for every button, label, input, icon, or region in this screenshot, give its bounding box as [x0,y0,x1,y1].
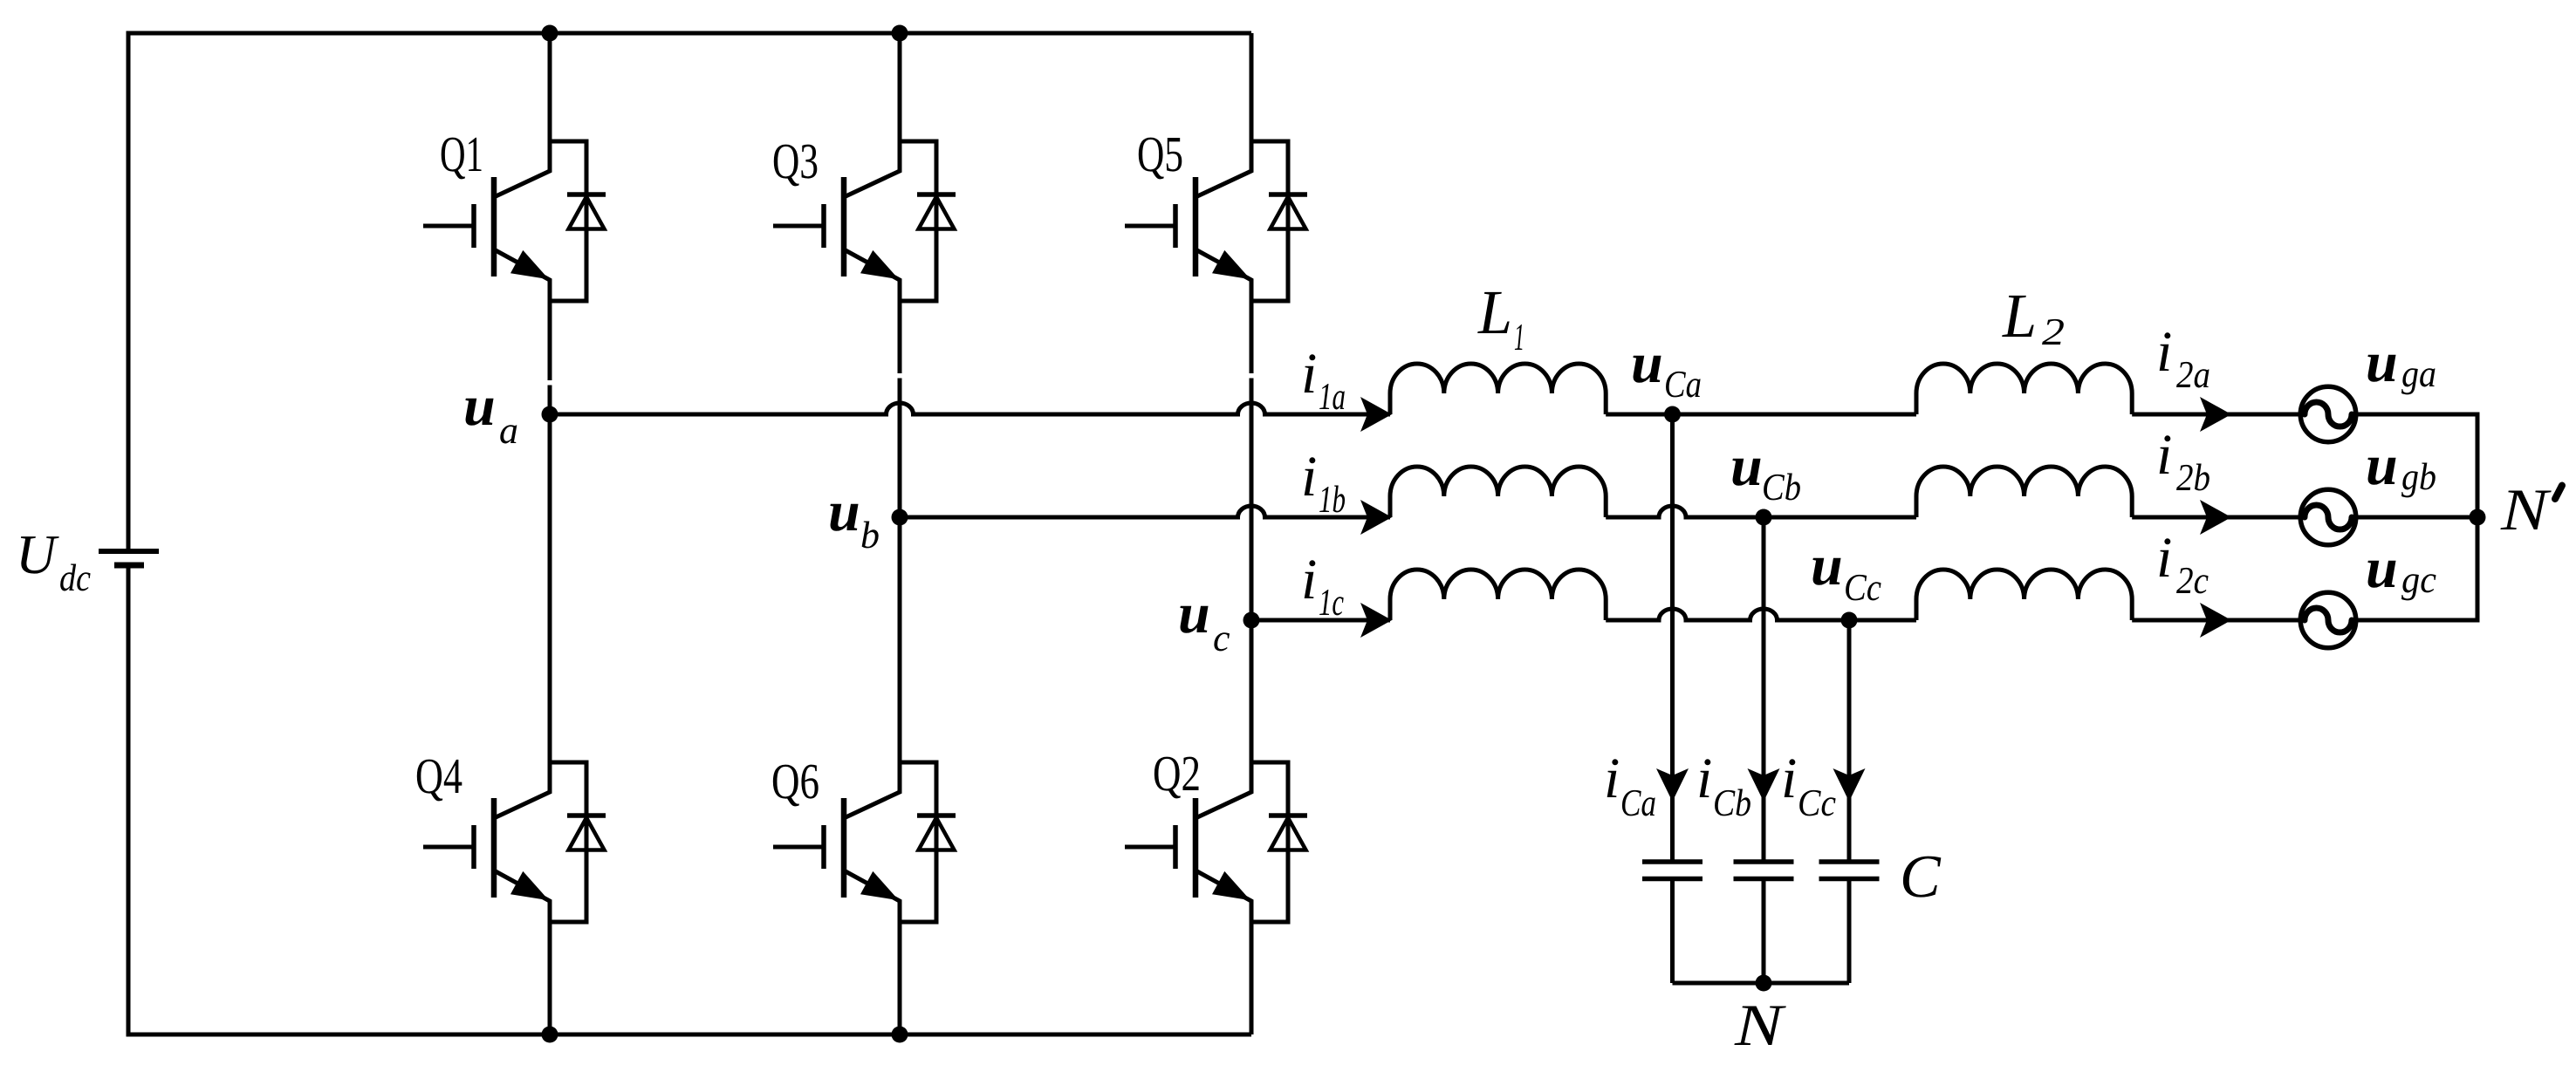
label u_a [465,399,493,426]
wire: battery negative to bottom bus [127,568,131,1037]
label i_2a [2160,332,2171,371]
transistor Q6 (IGBT): collector/emitter leads, body bar, gate [844,761,900,923]
transistor Q4 (IGBT): collector/emitter leads, body bar, gate [494,761,550,923]
label u_Cb [1732,459,1760,486]
label Q4 [417,760,462,802]
battery U_dc [99,549,159,554]
inductor L1 phase b [1390,467,1606,517]
label i_2b [2160,435,2171,474]
AC source u_ga [2300,386,2356,442]
arrow: i_2a [2200,397,2231,432]
wire: capacitor neutral bus N [1673,981,1850,986]
label N-prime [2500,490,2551,529]
label C [1903,857,1941,898]
label i_Ca subscript [1622,790,1655,816]
label u_Cc [1812,558,1840,585]
wire: L1b to L2b, hop over u_Ca branch, through u_Cb node [1606,506,1916,517]
wire: L2a to grid source u_ga [2132,413,2300,417]
label i_1a subscript [1319,384,1345,409]
label u_Cc subscript [1846,575,1881,601]
label i_1b [1305,457,1316,495]
node: bottom bus / Q4 leg [542,1027,558,1043]
capacitor C phase a [1642,859,1702,864]
label u_gb [2367,458,2395,485]
arrow: i_1b [1360,500,1392,535]
wire: leg top, Q3 collector [898,33,902,141]
node: u_c [1243,612,1260,629]
wire: leg bottom, Q4 emitter to negative bus [548,921,552,1034]
arrow: capacitor current i_Cb [1748,768,1780,802]
label U_dc [21,536,59,574]
label u_Cb subscript [1764,473,1800,500]
label u_c [1180,606,1208,633]
label i_1a [1305,354,1316,393]
wire: u_gc to right neutral riser [2356,618,2477,623]
diode: antiparallel freewheeling diode of Q4 [550,762,586,922]
label i_1c [1305,560,1316,598]
capacitor C phase c [1819,859,1880,864]
label u_b [830,504,858,531]
wire: left DC link, battery positive to top bus [127,31,131,550]
arrow: capacitor current i_Cc [1833,768,1866,802]
node: u_Cb [1756,509,1772,526]
label Q2 [1154,757,1199,799]
label i_Cc subscript [1799,790,1835,816]
capacitor C phase b [1734,859,1794,864]
wire: leg middle (phase point) [1250,300,1254,762]
wire: negative DC bus (bottom) [128,1033,1251,1037]
wire: capacitor branch a from u_Ca down to capacitor [1670,414,1675,862]
label u_gb subscript [2401,462,2436,497]
label i_Cb [1700,759,1711,797]
AC source u_gc [2300,592,2356,648]
inductor L1 phase a [1390,364,1606,414]
label U_dc subscript [60,563,90,591]
wire: capacitor c to neutral bus N [1847,879,1852,984]
wire: u_gb to neutral node N-prime [2356,515,2477,520]
inductor L2 phase a [1916,364,2132,414]
inductor L2 phase c [1916,570,2132,620]
label i_2a subscript [2176,362,2209,388]
diode: antiparallel freewheeling diode of Q6 [900,762,936,922]
label N [1734,1006,1785,1045]
node: u_Ca [1664,406,1681,423]
node: top bus / Q1 leg [542,25,558,42]
arrow: i_1a [1360,397,1392,432]
diode: antiparallel freewheeling diode of Q1 [550,141,586,301]
diode: antiparallel freewheeling diode of Q2 [1251,762,1288,922]
AC source u_gb [2300,489,2356,545]
label Q3 [774,145,818,187]
label i_2c [2160,538,2171,577]
label Q6 [773,765,819,807]
label Q1 [442,138,482,180]
label L_1 subscript [1515,324,1523,350]
node: u_b [892,509,908,526]
label i_Ca [1607,759,1619,797]
label i_Cc [1785,759,1796,797]
label u_Ca [1633,356,1661,383]
wire: leg top, Q5 collector [1250,33,1254,141]
wire: leg middle (phase point) [548,300,552,762]
label u_a subscript [500,425,517,443]
label u_gc [2367,561,2395,588]
node: N [1756,975,1772,992]
label u_Ca subscript [1666,372,1701,398]
wire: phase a from u_a to L1a [550,403,1390,414]
wire: capacitor a to neutral bus N [1670,879,1675,984]
arrow: i_1c [1360,603,1392,638]
node: top bus / Q3 leg [892,25,908,42]
node: u_a [542,406,558,423]
inductor L2 phase b [1916,467,2132,517]
wire: phase b from u_b to L1b [900,506,1390,517]
label i_2b subscript [2176,463,2209,490]
label L_2 [2002,296,2034,337]
node: bottom bus / Q6 leg [892,1027,908,1043]
wire: u_ga to right neutral riser [2356,413,2477,417]
label i_Cb subscript [1715,789,1750,816]
label i_1c subscript [1319,590,1344,615]
wire: leg top, Q1 collector [548,33,552,141]
wire: capacitor branch c from u_Cc down to capacitor [1847,620,1852,862]
label u_gc subscript [2401,574,2436,600]
label u_ga [2367,355,2395,382]
arrow: i_2b [2200,500,2231,535]
label i_2c subscript [2176,568,2209,594]
label L_2 subscript [2042,319,2064,345]
arrow: i_2c [2200,603,2231,638]
wire: leg bottom, Q6 emitter to negative bus [898,921,902,1034]
diode: antiparallel freewheeling diode of Q5 [1251,141,1288,301]
transistor Q2 (IGBT): collector/emitter leads, body bar, gate [1196,761,1251,923]
wire: leg middle (phase point) [898,300,902,762]
wire: L2b to grid source u_gb [2132,515,2300,520]
label Q5 [1139,138,1182,180]
wire: phase c from u_c to L1c [1251,618,1390,623]
label L_1 [1477,292,1510,333]
transistor Q3 (IGBT): collector/emitter leads, body bar, gate [844,140,900,302]
label N-prime tick [2555,486,2562,500]
label u_c subscript [1214,632,1230,651]
wire: L2c to grid source u_gc [2132,618,2300,623]
node: N-prime [2470,509,2486,526]
wire: L1a to L2a through u_Ca node [1606,413,1916,417]
label u_ga subscript [2401,368,2435,394]
wire: leg bottom, Q2 emitter to negative bus [1250,921,1254,1034]
wire: positive DC bus (top) [128,31,1251,36]
label i_1b subscript [1319,485,1345,512]
wire: L1c to L2c, hops over u_Ca and u_Cb branches, through u_Cc node [1606,609,1916,620]
arrow: capacitor current i_Ca [1656,768,1689,802]
wire: capacitor branch b from u_Cb down to capacitor [1762,517,1766,862]
diode: antiparallel freewheeling diode of Q3 [900,141,936,301]
inductor L1 phase c [1390,570,1606,620]
node: u_Cc [1841,612,1858,629]
wire: right neutral riser joining the three sources at N-prime [2476,413,2480,623]
transistor Q1 (IGBT): collector/emitter leads, body bar, gate [494,140,550,302]
wire: capacitor b to neutral bus N [1762,879,1766,984]
label u_b subscript [862,521,879,548]
transistor Q5 (IGBT): collector/emitter leads, body bar, gate [1196,140,1251,302]
